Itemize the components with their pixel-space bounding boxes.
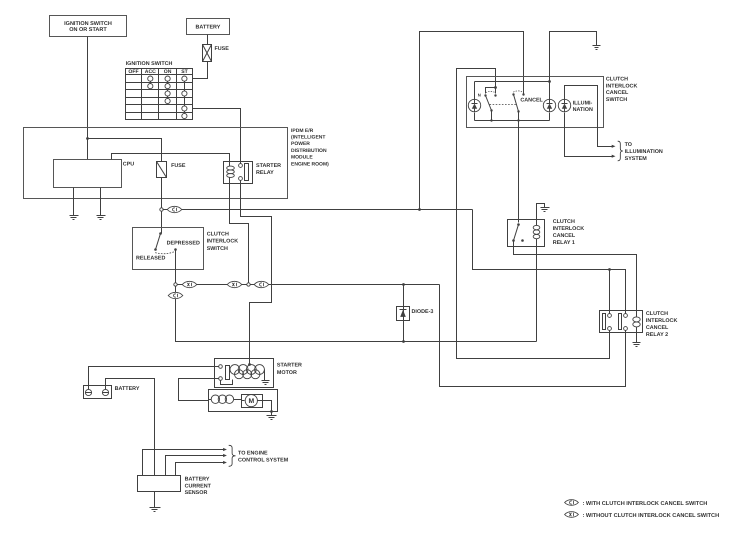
ground under CPU 2 [97, 216, 106, 220]
relay2 armature bar 2 [619, 314, 622, 330]
relay2 armature bar 1 [603, 314, 606, 330]
ground G2 relay1 [541, 208, 550, 212]
wire starter relay coil to interlock net [230, 178, 249, 283]
sensor output wire 2 [166, 456, 225, 476]
N-switch contacts [478, 88, 497, 98]
svg-text:OFF: OFF [128, 69, 138, 75]
wire node A to fuse F2 [88, 139, 162, 162]
svg-text:CLUTCH: CLUTCH [207, 232, 229, 238]
svg-text:BATTERY: BATTERY [115, 386, 140, 392]
sensor output wire 1 [143, 450, 225, 476]
battery current sensor label [185, 476, 212, 496]
svg-text:CANCEL: CANCEL [520, 97, 543, 103]
svg-text:STARTER: STARTER [277, 363, 302, 369]
junction dot diode bottom [402, 340, 405, 343]
wire case ground stem [271, 412, 273, 416]
arrow to illumination system 1 [612, 145, 616, 148]
switch mechanical link dashed [490, 104, 517, 106]
wire CI net up to cancel switch feed [420, 32, 524, 210]
to engine control system label [238, 450, 289, 463]
wire sensor to ground [154, 492, 156, 508]
wire relay1 coil to ground [537, 204, 545, 226]
svg-text:BATTERY: BATTERY [185, 476, 210, 482]
starter motor body box [209, 390, 278, 412]
fuse F2 (IPDM fuse, diagonal symbol) [157, 162, 186, 178]
svg-text:RELAY 1: RELAY 1 [553, 240, 575, 246]
wire relay2 coil to ground [636, 327, 638, 343]
N-switch blade [486, 96, 493, 122]
svg-text:: WITH CLUTCH INTERLOCK CANCEL: : WITH CLUTCH INTERLOCK CANCEL SWITCH [583, 501, 708, 507]
svg-text:INTERLOCK: INTERLOCK [207, 239, 239, 245]
cancel switch contacts [512, 91, 543, 104]
oval CI-2 symbol [254, 281, 269, 287]
svg-text:N: N [478, 92, 481, 97]
legend XI text [583, 513, 720, 519]
svg-text:SENSOR: SENSOR [185, 490, 208, 496]
svg-text:FUSE: FUSE [171, 163, 186, 169]
wire depressed contact down to connector node C [175, 250, 177, 283]
junction dot lamp bus [548, 80, 551, 83]
arrow to engine control 1 [223, 448, 227, 451]
junction dot on CI wire [418, 208, 421, 211]
wire fuse F2 to connector node [161, 178, 163, 209]
svg-text:CLUTCH: CLUTCH [606, 77, 628, 83]
indicator lamp LED2 [543, 99, 555, 111]
connector circle node C [174, 283, 177, 286]
to illumination system label [625, 142, 663, 162]
clutch interlock switch label [207, 232, 239, 252]
svg-text:: WITHOUT CLUTCH INTERLOCK CAN: : WITHOUT CLUTCH INTERLOCK CANCEL SWITCH [583, 513, 720, 519]
junction dot solenoid feed [248, 363, 251, 366]
svg-text:CURRENT: CURRENT [185, 483, 212, 489]
wire node D through CI oval to diode net [251, 284, 440, 286]
svg-text:DISTRIBUTION: DISTRIBUTION [291, 148, 327, 154]
wire node C down through CI oval to relay1 coil net [176, 287, 537, 342]
svg-text:STARTER: STARTER [256, 163, 281, 169]
wire CI net to relay2 top contacts [473, 210, 626, 314]
wire relay1 output to relay2 coil [514, 241, 637, 317]
arrow to engine control 2 [223, 454, 227, 457]
wire battery to starter motor terminal [89, 367, 219, 390]
svg-text:CANCEL: CANCEL [646, 325, 669, 331]
clutch interlock switch box [133, 228, 204, 270]
starter motor magnetic switch box [215, 359, 274, 388]
svg-text:CANCEL: CANCEL [606, 90, 629, 96]
svg-text:TO: TO [625, 142, 632, 148]
svg-text:INTERLOCK: INTERLOCK [646, 318, 678, 324]
fuse F1 (battery fuse, X symbol) [203, 45, 230, 62]
junction dot motor ground [270, 410, 273, 413]
svg-text:SYSTEM: SYSTEM [625, 156, 648, 162]
starter relay box [224, 162, 282, 184]
clutch interlock switch contacts and blade [136, 229, 200, 262]
illumination lamp circuit [565, 86, 614, 157]
brace illumination [618, 141, 623, 161]
ground G1 top right [593, 46, 601, 50]
wire fuse F1 to ignition switch ST row1 [193, 62, 208, 79]
svg-text:RELAY 2: RELAY 2 [646, 332, 668, 338]
svg-text:DEPRESSED: DEPRESSED [167, 241, 200, 247]
starter motor solenoid coil [230, 365, 264, 379]
node A junction dot (ignition feed split) [86, 137, 89, 140]
clutch interlock cancel relay1 box [508, 220, 545, 247]
svg-text:MOTOR: MOTOR [277, 370, 297, 376]
starter motor contact bar [226, 366, 230, 380]
wire XI net to relay2 contact2 bottom [440, 285, 626, 387]
svg-text:NATION: NATION [573, 107, 593, 113]
wire relay2 contact1 bottom to N-switch feed [457, 69, 610, 359]
ground G3 relay2 [633, 343, 641, 347]
junction dot diode top [402, 283, 405, 286]
relay2 contact circles 1 [608, 314, 612, 331]
svg-text:TO ENGINE: TO ENGINE [238, 450, 268, 456]
svg-text:ENGINE ROOM): ENGINE ROOM) [291, 161, 329, 167]
illumination lamp label [573, 100, 593, 113]
junction dot relay2 contact1 feed [608, 268, 611, 271]
wire ST row5 to starter relay contact [193, 109, 241, 164]
wire relay1 coil bottom [536, 239, 538, 342]
cancel switch inner wire loop [475, 82, 550, 121]
svg-text:INTERLOCK: INTERLOCK [553, 226, 585, 232]
oval XI-2 symbol [227, 281, 242, 287]
relay1 switch [512, 223, 524, 242]
diode D3 box [397, 307, 410, 321]
battery current sensor box [138, 476, 181, 492]
starter relay coil [227, 166, 235, 177]
svg-text:ACC: ACC [145, 69, 156, 75]
wire into motor body [209, 399, 212, 401]
svg-text:CANCEL: CANCEL [553, 233, 576, 239]
svg-text:IGNITION SWITCH: IGNITION SWITCH [126, 61, 173, 67]
clutch interlock cancel switch label [606, 77, 638, 103]
svg-text:CPU: CPU [123, 162, 134, 168]
wire battery to current sensor [106, 379, 155, 476]
wire node B down to clutch interlock switch [161, 212, 163, 229]
svg-text:BATTERY: BATTERY [195, 25, 220, 31]
wire node C to XI ovals to node D [178, 284, 247, 286]
connector circle node B [160, 208, 163, 211]
wire node B through CI oval to right [163, 209, 473, 211]
wire battery to fuse F1 [207, 35, 209, 45]
wire solenoid to internal ground [264, 370, 266, 381]
clutch interlock cancel switch outer box [467, 77, 604, 128]
svg-text:M: M [248, 398, 254, 405]
svg-text:IGNITION SWITCH: IGNITION SWITCH [64, 21, 112, 27]
cancel switch blade [514, 95, 520, 122]
starter motor field coil [211, 395, 233, 403]
ignition switch contact circles [148, 76, 187, 119]
svg-text:IPDM E/R: IPDM E/R [291, 128, 314, 134]
wire starter terminal2 loop to motor body [179, 379, 219, 401]
svg-text:INTERLOCK: INTERLOCK [606, 83, 638, 89]
diode D3 label [412, 309, 434, 315]
ground G5 motor [267, 416, 277, 420]
starter relay armature bar [245, 164, 249, 181]
wire ignition box to IPDM CPU node [87, 37, 89, 139]
svg-text:FUSE: FUSE [215, 46, 230, 52]
battery B1 source box [187, 19, 230, 35]
svg-text:ST: ST [181, 69, 188, 75]
svg-text:CLUTCH: CLUTCH [553, 219, 575, 225]
wire starter relay contact to starter motor [241, 181, 272, 365]
svg-text:MODULE: MODULE [291, 155, 313, 161]
relay2 contact circles 2 [624, 314, 628, 331]
relay1 coil [533, 225, 540, 238]
svg-text:RELEASED: RELEASED [136, 256, 165, 262]
legend XI oval [565, 512, 579, 518]
relay2 coil [633, 317, 640, 327]
svg-text:SWITCH: SWITCH [606, 97, 627, 103]
starter motor label [277, 363, 302, 376]
connector circle node D [247, 283, 250, 286]
svg-text:SWITCH: SWITCH [207, 246, 228, 252]
wire cancel blade to relay1 contact [518, 121, 520, 223]
svg-text:RELAY: RELAY [256, 170, 274, 176]
wire node A to CPU [87, 139, 89, 160]
IPDM E/R label [291, 128, 329, 168]
battery B2 box [84, 386, 140, 399]
clutch interlock cancel relay1 label [553, 219, 585, 246]
indicator lamp LED1 [468, 99, 480, 111]
legend CI oval [565, 500, 579, 506]
svg-text:POWER: POWER [291, 141, 310, 147]
svg-text:ILLUMI-: ILLUMI- [573, 100, 593, 106]
wire dot down to relay2 contact1 [609, 270, 611, 314]
starter motor terminal circles [219, 365, 223, 381]
oval XI-1 symbol [182, 281, 197, 287]
ground under CPU 1 [70, 216, 79, 220]
oval CI-3 symbol [168, 292, 183, 298]
ground G4 solenoid [262, 381, 270, 385]
wire lamp bus to ground [550, 32, 597, 82]
clutch interlock cancel relay2 label [646, 311, 678, 338]
ignition switch ON/START source box [50, 16, 127, 37]
ignition switch position table [126, 61, 193, 120]
clutch interlock cancel relay2 box [600, 311, 643, 333]
starter relay contact circles [239, 164, 243, 181]
motor M assembly [242, 395, 263, 408]
diode D3 symbol [400, 285, 407, 342]
arrow to illumination system 2 [612, 155, 616, 158]
wire field coil to motor [234, 399, 242, 401]
oval CI-1 symbol [167, 206, 182, 212]
sensor output wire 3 [176, 463, 225, 476]
illumination lamp LED3 [558, 99, 570, 111]
wire terminal2 to hold-in winding [221, 380, 233, 385]
svg-text:ON OR START: ON OR START [69, 27, 107, 33]
svg-text:(INTELLIGENT: (INTELLIGENT [291, 135, 325, 141]
junction dot N-switch feed [494, 86, 497, 89]
IPDM E/R module box [24, 128, 288, 199]
ground G6 sensor [150, 508, 161, 512]
svg-text:CONTROL SYSTEM: CONTROL SYSTEM [238, 458, 289, 464]
legend CI text [583, 501, 708, 507]
arrow to engine control 3 [223, 461, 227, 464]
svg-text:ILLUMINATION: ILLUMINATION [625, 149, 663, 155]
CPU box [54, 160, 135, 188]
svg-text:CLUTCH: CLUTCH [646, 311, 668, 317]
wire CPU grounds [74, 188, 101, 216]
svg-text:ON: ON [164, 69, 172, 75]
wire CPU to starter relay coil [112, 154, 230, 167]
battery B2 terminals [85, 389, 108, 395]
brace engine control [229, 445, 236, 466]
svg-text:DIODE-3: DIODE-3 [412, 309, 434, 315]
wire motor to case ground [263, 401, 272, 412]
